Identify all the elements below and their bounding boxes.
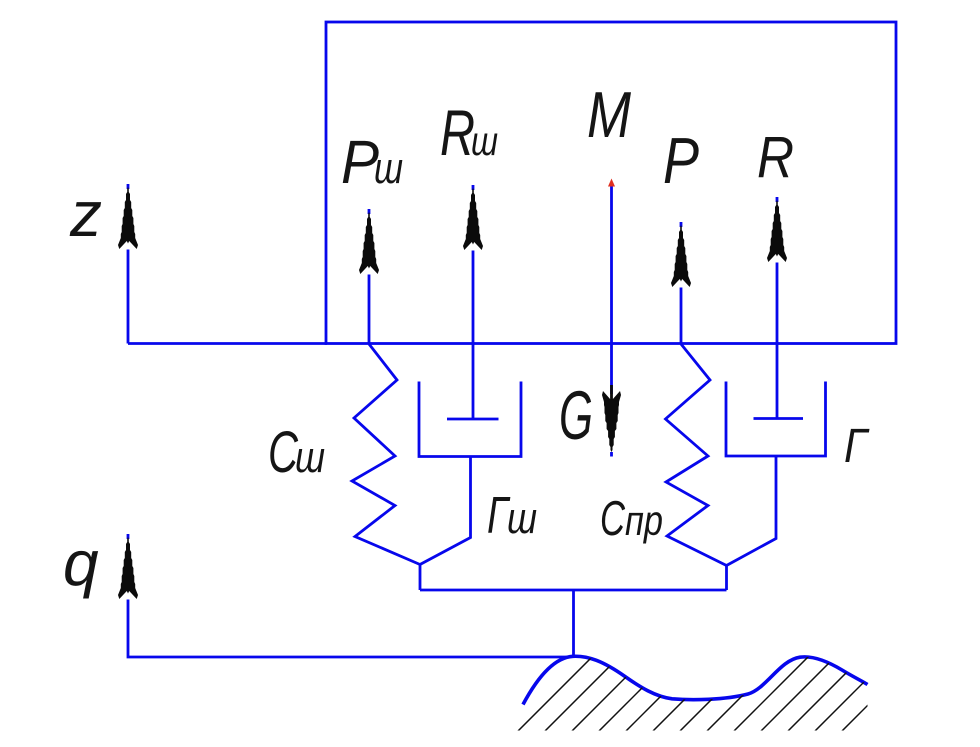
svg-text:P: P [663, 124, 699, 197]
svg-text:C: C [600, 492, 625, 546]
svg-text:R: R [757, 125, 794, 190]
svg-text:пр: пр [625, 497, 663, 544]
svg-text:Γ: Γ [844, 420, 870, 473]
svg-text:ш: ш [471, 118, 498, 164]
svg-text:ш: ш [507, 494, 537, 543]
svg-text:ш: ш [295, 433, 325, 482]
svg-text:G: G [559, 377, 593, 454]
svg-text:R: R [440, 96, 475, 169]
svg-text:z: z [69, 178, 102, 250]
svg-text:M: M [587, 78, 632, 151]
svg-text:ш: ш [374, 144, 403, 193]
svg-text:q: q [63, 527, 99, 599]
